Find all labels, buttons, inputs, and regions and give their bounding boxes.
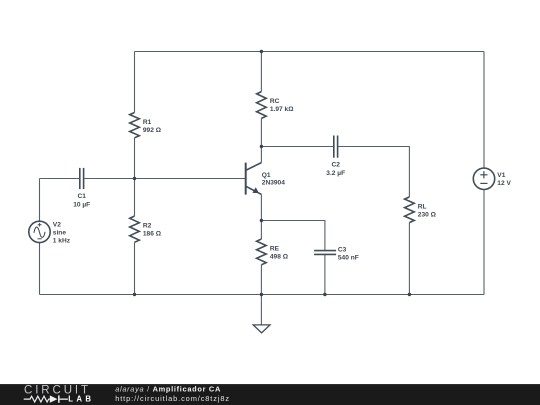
- junction node emitter/C3: [260, 219, 263, 222]
- svg-text:C1: C1: [77, 193, 86, 200]
- wire R1 top lead: [134, 52, 136, 113]
- label RC: [270, 98, 294, 113]
- logo resistor zigzag: [24, 396, 50, 402]
- resistor R1: [130, 113, 140, 138]
- wire emitter node to C3: [261, 221, 325, 251]
- svg-text:RE: RE: [270, 246, 280, 253]
- label C2: [326, 161, 345, 177]
- resistor RE: [257, 239, 267, 265]
- svg-text:186 Ω: 186 Ω: [143, 231, 162, 238]
- transistor Q1 body: [246, 163, 262, 195]
- label C3: [338, 247, 359, 262]
- wire C1 to base: [84, 178, 246, 180]
- junction node bottom R2: [133, 293, 136, 296]
- svg-text:10 µF: 10 µF: [73, 202, 90, 209]
- wire R1-R2 middle: [134, 138, 136, 216]
- svg-text:R2: R2: [143, 223, 152, 230]
- wire V2 bottom lead: [39, 243, 41, 295]
- svg-text:230 Ω: 230 Ω: [418, 212, 437, 219]
- svg-text:LAB: LAB: [68, 395, 94, 404]
- svg-text:RL: RL: [418, 203, 427, 210]
- wire RL bottom lead: [408, 223, 410, 295]
- capacitor C3 plates: [314, 251, 336, 255]
- wire V2 top lead: [39, 179, 41, 222]
- junction node bottom C3: [323, 293, 326, 296]
- wire RE bottom lead: [260, 265, 262, 295]
- wire V1 bottom lead: [483, 190, 485, 295]
- junction node bottom RL: [408, 293, 411, 296]
- resistor RL: [405, 197, 415, 223]
- junction node base/R1R2: [133, 177, 136, 180]
- capacitor C2 plates: [334, 136, 338, 158]
- svg-text:498 Ω: 498 Ω: [270, 254, 289, 261]
- svg-text:2N3904: 2N3904: [262, 179, 285, 186]
- wire RC bottom lead to collector node: [260, 118, 262, 146]
- wire RC top lead: [260, 52, 262, 92]
- svg-text:3.2 µF: 3.2 µF: [326, 170, 345, 177]
- svg-text:C3: C3: [338, 247, 347, 254]
- wire C2 to RL corner: [338, 147, 410, 197]
- svg-text:alaraya / Amplificador CA: alaraya / Amplificador CA: [115, 385, 221, 394]
- svg-text:R1: R1: [143, 119, 152, 126]
- svg-text:992 Ω: 992 Ω: [143, 127, 162, 134]
- label R2: [143, 223, 162, 238]
- label V1: [497, 172, 511, 187]
- wire V1 top lead: [483, 52, 485, 169]
- svg-text:http://circuitlab.com/c8tzj8z: http://circuitlab.com/c8tzj8z: [115, 394, 230, 403]
- capacitor C1 plates: [80, 168, 84, 189]
- junction node bottom RE/ground: [260, 293, 263, 296]
- footer bar: [0, 384, 540, 405]
- label RE: [270, 246, 289, 261]
- svg-text:1.97 kΩ: 1.97 kΩ: [270, 106, 294, 113]
- ground symbol: [253, 325, 270, 333]
- wire input left (V2 to C1): [40, 178, 80, 180]
- svg-text:Q1: Q1: [262, 172, 271, 179]
- source V1 circle: [473, 168, 494, 189]
- label RL: [418, 203, 437, 218]
- logo diode: [50, 395, 68, 402]
- svg-text:12 V: 12 V: [497, 180, 511, 187]
- junction node collector/C2: [260, 145, 263, 148]
- svg-text:C2: C2: [331, 161, 340, 168]
- label Q1: [262, 172, 285, 186]
- wire RE top lead: [260, 221, 262, 240]
- wire emitter vertical: [260, 194, 262, 220]
- wire collector vertical: [260, 147, 262, 163]
- svg-text:1 kHz: 1 kHz: [53, 238, 71, 245]
- source V2 circle: [29, 221, 50, 242]
- wire ground stub: [260, 295, 262, 325]
- label C1: [73, 193, 90, 209]
- resistor RC: [257, 92, 267, 119]
- wire R2 bottom lead: [134, 242, 136, 294]
- wire bottom rail: [40, 294, 485, 296]
- svg-text:RC: RC: [270, 98, 280, 105]
- junction node top rail/RC: [260, 50, 263, 53]
- svg-text:sine: sine: [53, 230, 67, 237]
- label V2: [53, 221, 71, 244]
- label R1: [143, 119, 162, 134]
- svg-text:540 nF: 540 nF: [338, 255, 359, 262]
- resistor R2: [130, 216, 140, 242]
- wire collector node to C2: [261, 146, 333, 148]
- svg-text:V2: V2: [53, 221, 61, 228]
- wire C3 bottom lead: [324, 254, 326, 294]
- wire top rail: [135, 51, 485, 53]
- svg-text:V1: V1: [497, 172, 505, 179]
